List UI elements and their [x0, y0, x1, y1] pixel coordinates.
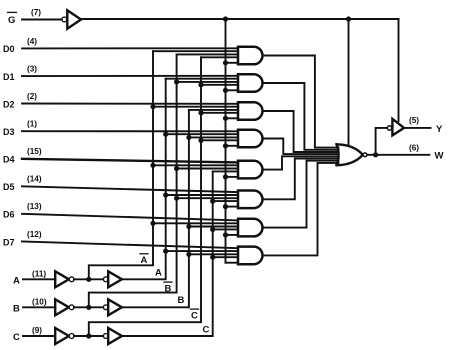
- svg-text:(2): (2): [27, 92, 37, 101]
- svg-text:A: A: [155, 268, 162, 279]
- svg-text:Y: Y: [436, 124, 443, 135]
- svg-text:D6: D6: [3, 210, 15, 220]
- svg-text:(11): (11): [32, 269, 46, 278]
- svg-text:D1: D1: [3, 72, 15, 82]
- svg-text:B: B: [13, 304, 20, 315]
- svg-text:D5: D5: [3, 182, 15, 192]
- svg-text:B: B: [178, 295, 185, 306]
- svg-text:(10): (10): [32, 297, 47, 306]
- svg-text:(5): (5): [409, 116, 419, 125]
- svg-text:(9): (9): [32, 326, 42, 335]
- svg-text:G: G: [8, 15, 15, 26]
- svg-text:(4): (4): [27, 37, 37, 46]
- svg-text:(1): (1): [27, 120, 37, 129]
- svg-text:(3): (3): [27, 65, 37, 74]
- svg-text:D7: D7: [3, 237, 15, 247]
- svg-text:(15): (15): [27, 147, 42, 156]
- svg-text:C: C: [203, 325, 210, 336]
- svg-text:D2: D2: [3, 99, 15, 109]
- svg-text:C: C: [191, 310, 198, 321]
- svg-text:C: C: [13, 332, 20, 343]
- svg-text:(6): (6): [409, 144, 419, 153]
- svg-text:D3: D3: [3, 127, 15, 137]
- svg-text:A: A: [141, 255, 148, 266]
- svg-text:(12): (12): [27, 230, 42, 239]
- svg-text:(14): (14): [27, 175, 42, 184]
- svg-text:B: B: [165, 283, 172, 294]
- svg-text:D0: D0: [3, 44, 15, 54]
- svg-text:W: W: [435, 151, 444, 162]
- svg-text:D4: D4: [3, 155, 15, 165]
- svg-text:(13): (13): [27, 202, 42, 211]
- svg-text:A: A: [13, 276, 20, 287]
- svg-text:(7): (7): [31, 8, 41, 17]
